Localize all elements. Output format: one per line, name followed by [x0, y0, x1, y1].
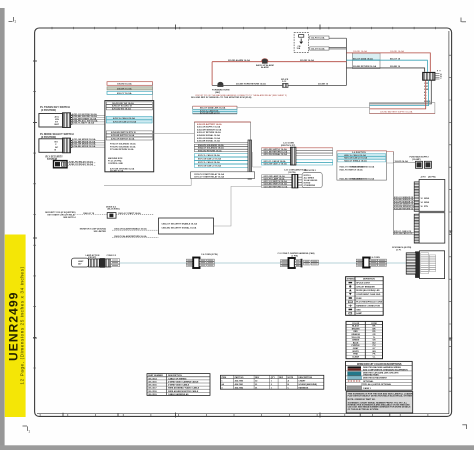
svg-text:A713-GN CAN LO 18: A713-GN CAN LO 18 [200, 112, 220, 115]
X9 pin label texts below [424, 83, 431, 103]
svg-text:WIRE ASSEMBLY RADIO CABLE: WIRE ASSEMBLY RADIO CABLE [168, 387, 200, 390]
harness label block W1 [352, 53, 380, 69]
svg-text:A150-RD BATTERY 14-GA: A150-RD BATTERY 14-GA [197, 123, 222, 126]
svg-text:GREEN: GREEN [352, 340, 360, 342]
svg-text:391-3516: 391-3516 [148, 385, 157, 387]
svg-text:A702-YL CAN HI 18-GA: A702-YL CAN HI 18-GA [113, 117, 135, 120]
svg-text:WH: WH [372, 351, 376, 353]
svg-text:DIODE (BLOCKING) LED: DIODE (BLOCKING) LED [356, 290, 380, 292]
svg-text:WHITE: WHITE [352, 351, 359, 353]
svg-text:(DEUTSCH DT): (DEUTSCH DT) [281, 145, 296, 147]
svg-text:J1 P1: J1 P1 [396, 250, 402, 252]
svg-text:CHART: CHART [298, 379, 306, 382]
svg-text:A741-PU RELAY 18-GA: A741-PU RELAY 18-GA [69, 160, 93, 163]
svg-text:391-3515: 391-3515 [148, 382, 157, 384]
svg-text:G215-OR LAMP 18-GA: G215-OR LAMP 18-GA [264, 175, 286, 178]
wire 893 cyan run [346, 60, 427, 72]
svg-text:CIRCUIT 229 OF THE MACHINE HAR: CIRCUIT 229 OF THE MACHINE HARNESS CONNE… [195, 94, 287, 97]
svg-text:3 WIRE VIDEO CABLE: 3 WIRE VIDEO CABLE [168, 384, 190, 387]
frame tick marks right [449, 231, 453, 378]
connector X3 column [291, 147, 296, 165]
legend gray bar [347, 386, 362, 389]
scan gray strip bottom [0, 445, 474, 450]
wire labels SW1 run [72, 113, 98, 125]
main harness wire (segment 4) [387, 262, 407, 264]
wire labels SW2 run [72, 138, 96, 148]
svg-text:BROWN: BROWN [352, 328, 360, 330]
CB1 wire label row 1 [310, 36, 329, 39]
svg-text:BLUE: BLUE [353, 342, 359, 344]
svg-text:(2 POSITION): (2 POSITION) [41, 109, 56, 112]
svg-text:229-RD 16-GA: 229-RD 16-GA [300, 59, 314, 62]
svg-text:C861-GY START 18-GA: C861-GY START 18-GA [118, 212, 141, 215]
stub wire from center blocks to group G [253, 152, 262, 167]
connector P1 (hatched) [63, 113, 71, 128]
svg-text:391-3517: 391-3517 [148, 388, 157, 390]
frame ruler ticks left [33, 61, 36, 368]
svg-text:456-7890: 456-7890 [235, 379, 244, 382]
svg-text:(TYPE: ALL) LISTED OPTIONAL: (TYPE: ALL) LISTED OPTIONAL [361, 383, 392, 386]
svg-text:NOTE: NOTE [288, 377, 294, 379]
svg-text:G217-GY SWITCH 18-GA: G217-GY SWITCH 18-GA [264, 180, 288, 183]
svg-text:G211-BK RETURN 16-GA: G211-BK RETURN 16-GA [264, 151, 288, 154]
wire to fuse F1 [393, 161, 415, 163]
wire bars above ECM A : red bar [107, 82, 153, 86]
svg-text:WIRE ASSEM MONITOR CABLE: WIRE ASSEM MONITOR CABLE [168, 390, 199, 393]
svg-text:C863-PU ALARM RETURN 18-GA: C863-PU ALARM RETURN 18-GA [114, 235, 147, 238]
svg-text:SCHEM (MACHINE): SCHEM (MACHINE) [298, 383, 317, 386]
svg-text:HARNESS CONNECTION: HARNESS CONNECTION [356, 305, 380, 308]
wires from SW1 to ECM A [71, 115, 105, 124]
ECM B connector strip [414, 182, 419, 211]
svg-text:RED: RED [353, 331, 358, 333]
alarm B1 red feed wire [212, 61, 346, 63]
svg-text:LAMP: LAMP [78, 260, 84, 263]
svg-text:H232-OR SENSE 18-GA: H232-OR SENSE 18-GA [352, 166, 375, 169]
ECM A top pin rows [106, 102, 152, 110]
connector X9 (harness bulkhead) [423, 72, 435, 80]
wire color legend [346, 361, 413, 390]
svg-text:893-CY 16-GA: 893-CY 16-GA [117, 92, 132, 95]
wires from SW2 to ECM A [71, 141, 105, 148]
svg-text:391-3519: 391-3519 [148, 394, 157, 396]
svg-text:YELLOW: YELLOW [351, 337, 360, 339]
ECM C connector strip [414, 214, 419, 243]
svg-text:HARNESS: HARNESS [298, 386, 308, 389]
svg-text:A705-BR SWITCH 18-GA: A705-BR SWITCH 18-GA [111, 134, 135, 137]
frame tick marks top [176, 25, 321, 30]
loop label box W2 [370, 103, 435, 114]
svg-text:200-BK 16: 200-BK 16 [390, 66, 401, 68]
svg-text:109-RD BATTERY SUPPLY 16-GA: 109-RD BATTERY SUPPLY 16-GA [380, 110, 413, 113]
frame ruler ticks top [52, 27, 435, 29]
legend teal bar [348, 372, 361, 376]
border frame [35, 28, 452, 416]
red riser to horn line [211, 62, 213, 86]
wire bar cyan [107, 91, 153, 94]
svg-text:G219-BK RETURN 16-GA: G219-BK RETURN 16-GA [264, 185, 288, 188]
frame ruler ticks bottom [40, 414, 428, 417]
svg-text:BAT: BAT [55, 123, 60, 126]
svg-text:FLAT DETECT/OBJECT DETECTION M: FLAT DETECT/OBJECT DETECTION MACH ELECTR… [348, 395, 413, 398]
breaker CB1 (dashed box) [294, 33, 308, 53]
svg-text:150-RD 14-GA: 150-RD 14-GA [395, 160, 409, 163]
svg-text:DESCRIPTION: DESCRIPTION [298, 377, 312, 379]
svg-text:G212-WH SIGNAL 18-GA: G212-WH SIGNAL 18-GA [264, 153, 288, 156]
frame inner line bottom [37, 413, 449, 415]
center block B [194, 122, 250, 143]
connector X4 column [292, 174, 298, 188]
connector X9 pin ticks [436, 74, 440, 79]
svg-text:A151-OR SUPPLY 16-GA: A151-OR SUPPLY 16-GA [197, 126, 221, 129]
wire rows group F [262, 148, 333, 156]
svg-text:DEFINITION: DEFINITION [363, 279, 375, 281]
lamp E1 pin labels [111, 259, 120, 267]
wire color code table [346, 321, 383, 358]
svg-text:CABLE GP-WIRING: CABLE GP-WIRING [168, 377, 187, 380]
svg-text:12 Page, (Dimensions 25 inches: 12 Page, (Dimensions 25 inches x 34 inch… [20, 266, 25, 384]
svg-text:RTN: RTN [424, 206, 429, 208]
bus line right [392, 152, 394, 235]
legend maroon bar [348, 368, 361, 370]
svg-text:OTHERWISE: OTHERWISE [304, 185, 316, 187]
svg-text:C860-GY 18: C860-GY 18 [83, 213, 95, 215]
svg-text:H220-YL CAN HI 18-GA: H220-YL CAN HI 18-GA [344, 154, 366, 157]
dotted wire to splice S2 [77, 213, 107, 215]
lamp E1 connector [89, 259, 100, 267]
svg-text:(TWISTED PAIR): (TWISTED PAIR) [363, 374, 379, 377]
svg-text:G213-YL CAN HI 18-GA: G213-YL CAN HI 18-GA [264, 160, 287, 163]
svg-text:1: 1 [14, 20, 16, 24]
node V vertical junction [345, 38, 347, 85]
svg-text:391-3518: 391-3518 [148, 391, 157, 393]
svg-text:A: A [449, 231, 451, 235]
svg-text:COMPONENT CASE GND: COMPONENT CASE GND [356, 293, 381, 296]
horn H1 symbol [217, 82, 223, 87]
svg-text:DENOTES ATTACHMENT: DENOTES ATTACHMENT [363, 377, 388, 380]
wire rows group G [262, 175, 311, 188]
svg-text:F710-BU RETURN 18-GA: F710-BU RETURN 18-GA [110, 148, 134, 151]
wire labels K1 run [69, 160, 93, 166]
symbols table [346, 277, 384, 316]
ECM A cyan rows [106, 116, 152, 119]
svg-text:OF THIS ELECTRICAL SYSTEM.: OF THIS ELECTRICAL SYSTEM. [348, 408, 380, 411]
svg-text:A734-BU MODE 18-GA: A734-BU MODE 18-GA [72, 145, 96, 148]
svg-text:15A: 15A [297, 47, 301, 50]
svg-text:1: 1 [28, 430, 30, 434]
svg-text:230-BK HORN RETURN 16-GA: 230-BK HORN RETURN 16-GA [236, 83, 266, 86]
svg-text:FUSE: FUSE [356, 298, 362, 300]
svg-text:UENR2499: UENR2499 [7, 292, 21, 362]
svg-text:109-RD 16-GA: 109-RD 16-GA [117, 83, 132, 86]
svg-text:J2 P2: J2 P2 [420, 177, 426, 179]
svg-text:K306-BK RETURN 16: K306-BK RETURN 16 [394, 208, 413, 210]
legend black bar [348, 366, 361, 368]
svg-text:C871-GY START RELAY 18-GA: C871-GY START RELAY 18-GA [194, 176, 225, 179]
center top block rows [193, 106, 237, 114]
svg-text:CONN C-2: CONN C-2 [107, 255, 118, 257]
svg-text:E973-GN CAN LO 18-GA: E973-GN CAN LO 18-GA [198, 165, 222, 168]
svg-text:(12 PIN): (12 PIN) [288, 172, 296, 174]
connector column right of center blocks [248, 140, 252, 179]
svg-text:CASE 1: CASE 1 [363, 387, 372, 390]
wire 200 black run [346, 68, 424, 72]
ECM C box [419, 213, 445, 243]
corner fold mark bottom-right [462, 425, 467, 430]
svg-text:H234-BR SENSE 18-GA: H234-BR SENSE 18-GA [352, 177, 375, 180]
block H cyan rows [338, 154, 386, 157]
svg-text:A154-BU SIGNAL 18-GA: A154-BU SIGNAL 18-GA [197, 134, 220, 137]
svg-text:(BLOCKING): (BLOCKING) [108, 209, 120, 211]
svg-text:A700-GY SensRtn 18: A700-GY SensRtn 18 [112, 105, 133, 108]
corner fold mark bottom-left [23, 426, 28, 431]
svg-text:ITEM: ITEM [221, 377, 226, 379]
svg-text:C865-BU SECURITY SIGNAL 18-GA: C865-BU SECURITY SIGNAL 18-GA [162, 226, 197, 229]
center block D cyan rows [194, 154, 248, 168]
svg-text:C-6 CONN: C-6 CONN [370, 257, 380, 259]
wire ECM A to block B [154, 133, 195, 135]
svg-text:A155-GN SIGNAL 18-GA: A155-GN SIGNAL 18-GA [197, 137, 221, 140]
svg-text:A153-GY RETURN 18-GA: A153-GY RETURN 18-GA [197, 131, 221, 134]
svg-text:G214-GN CAN LO 18-GA: G214-GN CAN LO 18-GA [264, 163, 288, 166]
main harness wire (segment 3) [319, 262, 357, 264]
connector X5 [186, 259, 193, 266]
svg-text:REV: REV [255, 377, 260, 379]
svg-text:E971-GN CAN LO 18-GA: E971-GN CAN LO 18-GA [198, 158, 222, 161]
svg-text:200-BK 16-GA: 200-BK 16-GA [117, 88, 132, 91]
svg-text:F708-GY SOLENOID 18-GA: F708-GY SOLENOID 18-GA [110, 143, 136, 146]
svg-text:PLUG RECEPTACLE CONN: PLUG RECEPTACLE CONN [356, 301, 383, 304]
svg-text:893-GY DATA LINK 18-GA: 893-GY DATA LINK 18-GA [200, 107, 226, 110]
svg-text:SYMBOL: SYMBOL [347, 279, 357, 281]
svg-text:PURPLE: PURPLE [352, 345, 361, 347]
main harness wire (segment 2) [214, 262, 280, 264]
ECM D box [420, 251, 445, 279]
module M1 box [159, 218, 214, 234]
ECM D connector strip [415, 251, 419, 278]
frame inner line right [448, 31, 450, 414]
wires from K1 [68, 163, 97, 166]
svg-text:PINK: PINK [353, 354, 358, 356]
svg-text:G216-PU LAMP 18-GA: G216-PU LAMP 18-GA [264, 177, 286, 180]
stack text dashes connector X6 [282, 261, 318, 266]
revision table [220, 375, 323, 389]
svg-text:PART NO: PART NO [235, 376, 244, 379]
parts table [147, 374, 210, 396]
frame tick marks left [33, 61, 37, 338]
svg-text:200-BK RETURN 16-GA: 200-BK RETURN 16-GA [353, 65, 377, 68]
splice S1 on horn wire [283, 83, 289, 87]
svg-text:C-4 CONN (2 PIN): C-4 CONN (2 PIN) [201, 253, 218, 256]
stack text dashes connector X5 [187, 260, 213, 265]
svg-text:ORANGE: ORANGE [351, 333, 360, 336]
svg-text:169-PK KEY SW 18-GA: 169-PK KEY SW 18-GA [112, 102, 134, 105]
connector X7 [356, 259, 363, 266]
scan gray strip left [0, 8, 5, 450]
svg-text:SPLICE JOINT: SPLICE JOINT [356, 283, 370, 285]
svg-text:WIRE/CIRCUIT COLOR DESCRIPTION: WIRE/CIRCUIT COLOR DESCRIPTIONS [357, 363, 402, 366]
legend light blue bar [348, 376, 362, 379]
relay K1 body [54, 161, 68, 168]
frame ruler ticks right [449, 55, 452, 391]
connector X6 [281, 260, 289, 267]
svg-text:(24V): (24V) [215, 91, 220, 94]
module M1 header text [80, 229, 107, 234]
row block E [191, 172, 255, 179]
svg-text:ALARM: ALARM [261, 66, 269, 69]
svg-text:109-RD 16-GA: 109-RD 16-GA [390, 50, 404, 53]
svg-text:C862-OR ALARM ENABLE 18-GA: C862-OR ALARM ENABLE 18-GA [114, 228, 147, 231]
yellow media banner [5, 235, 26, 418]
svg-text:E963-PK SOLENOID 18-GA: E963-PK SOLENOID 18-GA [198, 144, 224, 147]
ECM B box [419, 180, 445, 212]
svg-text:CONTROL GND: CONTROL GND [108, 163, 123, 165]
svg-text:LAMP: LAMP [356, 312, 362, 315]
corner fold mark top-left [9, 17, 14, 22]
switch SW1 body [39, 114, 63, 128]
notes block [346, 392, 413, 413]
svg-text:A156-BR SIGNAL 18-GA: A156-BR SIGNAL 18-GA [197, 140, 220, 143]
svg-text:109-RD 16-GA: 109-RD 16-GA [353, 50, 367, 53]
wire from top block to loop box [237, 106, 370, 108]
svg-text:B: B [449, 338, 451, 342]
svg-text:113-GY 16-GA: 113-GY 16-GA [311, 48, 325, 51]
ECM D pin rows inside [421, 253, 436, 274]
ECM A mid rows [106, 131, 152, 140]
module M1 feed rows [112, 230, 158, 237]
ECM C wire rows [393, 232, 414, 234]
dotted feed labels text [45, 212, 76, 219]
svg-text:893-GY DATA 18-GA: 893-GY DATA 18-GA [353, 58, 373, 61]
ECM A text rows [110, 143, 136, 151]
ECM B wire rows [393, 198, 414, 210]
red wire block H to bus [387, 152, 394, 156]
svg-text:A701-BU SIG 18-GA: A701-BU SIG 18-GA [112, 107, 131, 110]
ECM D ladder connector [406, 253, 416, 274]
svg-text:456-7891: 456-7891 [235, 383, 244, 386]
svg-text:CODE: CODE [371, 323, 377, 325]
svg-text:16: 16 [421, 206, 423, 208]
svg-text:SENS: SENS [424, 198, 430, 200]
svg-text:E970-YL CAN HI 18-GA: E970-YL CAN HI 18-GA [198, 154, 220, 157]
svg-text:391-3514: 391-3514 [148, 377, 157, 380]
ECM A (machine control module) [105, 101, 154, 172]
svg-text:GND: GND [356, 309, 361, 311]
gray stub block H to bus [387, 162, 394, 164]
horn ground wire [212, 84, 346, 86]
CB1 wire label row 2 [310, 47, 329, 50]
svg-text:GRAY: GRAY [353, 347, 359, 350]
svg-text:2 WIRE VIDEO CAMERA CABLE: 2 WIRE VIDEO CAMERA CABLE [168, 381, 199, 384]
svg-text:COLOR: COLOR [352, 323, 360, 325]
svg-text:CABLE HARNESS AS: CABLE HARNESS AS [168, 393, 189, 396]
svg-text:12: 12 [421, 198, 423, 200]
svg-text:E964-GY SOLENOID 18-GA: E964-GY SOLENOID 18-GA [198, 147, 224, 150]
main harness wire (left segment) [120, 262, 187, 264]
svg-text:H221-GN CAN LO 18-GA: H221-GN CAN LO 18-GA [344, 157, 368, 160]
junction wires CB1 to node V [329, 37, 346, 39]
svg-text:SW LIMITER: SW LIMITER [94, 231, 107, 233]
svg-text:H222-GY SHIELD 18-GA: H222-GY SHIELD 18-GA [344, 160, 367, 163]
svg-text:456-7892: 456-7892 [235, 386, 244, 389]
svg-text:E965-BU RETURN 18-GA: E965-BU RETURN 18-GA [198, 149, 222, 152]
switch SW2 body [39, 139, 63, 153]
svg-text:A703-GN CAN LO 18-GA: A703-GN CAN LO 18-GA [113, 120, 137, 123]
svg-text:112-PU 16-GA: 112-PU 16-GA [311, 37, 325, 40]
loop return wires from X9 [370, 80, 432, 104]
svg-text:200-BK 16-GA: 200-BK 16-GA [110, 169, 124, 172]
svg-text:F709-PU SOLENOID 18-GA: F709-PU SOLENOID 18-GA [110, 145, 136, 148]
svg-text:(40 PIN): (40 PIN) [428, 176, 436, 179]
svg-text:QTY: QTY [271, 377, 276, 379]
svg-text:CIRCUIT BREAKER: CIRCUIT BREAKER [356, 285, 375, 288]
wire from module M1 up to group G [214, 186, 262, 226]
frame tick marks bottom [63, 413, 390, 418]
svg-text:SENS: SENS [424, 202, 430, 204]
wire stub from bars to ECM A top [152, 84, 154, 101]
svg-text:BLACK: BLACK [352, 325, 360, 328]
corner fold mark top-right [461, 18, 466, 23]
wire labels right of splice S2 [116, 213, 154, 215]
alarm B1 symbol [262, 59, 268, 64]
stack text dashes connector X7 [357, 260, 385, 265]
stack text dashes lamp E1 [112, 260, 118, 265]
center block C rows [194, 144, 248, 151]
svg-text:G210-RD SUPPLY 16-GA: G210-RD SUPPLY 16-GA [264, 148, 288, 151]
svg-text:CLEAR: CLEAR [352, 355, 359, 358]
svg-text:A704-WH SWITCH RTN 18: A704-WH SWITCH RTN 18 [111, 131, 137, 134]
svg-text:229-RD ALARM 16-GA: 229-RD ALARM 16-GA [228, 59, 250, 62]
svg-text:C864-GY SECURITY ENABLE 18-GA: C864-GY SECURITY ENABLE 18-GA [162, 223, 198, 226]
svg-text:K311-GN CAN LO 18: K311-GN CAN LO 18 [394, 232, 412, 235]
svg-text:C870-PU START RELAY 18-GA: C870-PU START RELAY 18-GA [194, 173, 224, 176]
svg-text:A706-OR SWITCH 18-GA: A706-OR SWITCH 18-GA [111, 137, 135, 140]
wire under ECM A to row E [104, 179, 191, 186]
svg-text:893-GY 18: 893-GY 18 [390, 59, 401, 61]
svg-text:A152-WH SENSOR 18-GA: A152-WH SENSOR 18-GA [197, 128, 222, 131]
svg-text:E972-YL CAN HI 18-GA: E972-YL CAN HI 18-GA [198, 161, 220, 164]
svg-text:DESCRIPTION: DESCRIPTION [168, 375, 182, 377]
svg-text:(15 AMP): (15 AMP) [412, 158, 421, 161]
svg-text:G218-BU SWITCH 18-GA: G218-BU SWITCH 18-GA [264, 183, 288, 186]
svg-text:A725-YL BATT 18-GA: A725-YL BATT 18-GA [72, 122, 94, 125]
legend dashed red bar [348, 380, 361, 382]
svg-text:A742-GY RELAY 18-GA: A742-GY RELAY 18-GA [69, 163, 93, 166]
svg-text:230-BK 16: 230-BK 16 [318, 84, 329, 86]
connector P2 (hatched) [63, 138, 71, 153]
lamp E1 body [72, 258, 89, 267]
svg-text:NOTE: ORDER BY PART NO.: NOTE: ORDER BY PART NO. [348, 398, 376, 401]
svg-text:ACC: ACC [55, 115, 60, 118]
wire 109 red run [346, 53, 430, 72]
svg-text:SEE NOTE 4: SEE NOTE 4 [63, 216, 76, 219]
wire bar olive [107, 87, 153, 90]
wire rows group F cyan [262, 160, 333, 165]
svg-text:SEE NOTE 2: SEE NOTE 2 [304, 170, 317, 172]
svg-text:MACHINE ECM: MACHINE ECM [108, 157, 123, 160]
symbol glyphs [348, 282, 352, 314]
svg-text:H231-PU SWITCH 18-GA: H231-PU SWITCH 18-GA [340, 168, 364, 171]
svg-text:PART NUMBER: PART NUMBER [148, 374, 163, 377]
block H (harness junction) [337, 151, 387, 180]
